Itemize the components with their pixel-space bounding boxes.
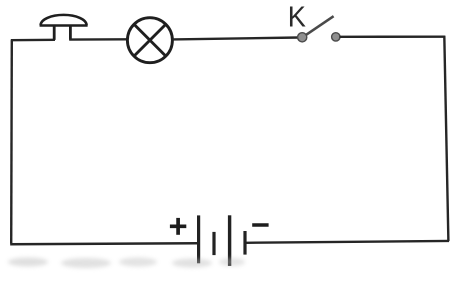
lamp xyxy=(127,18,172,63)
battery xyxy=(199,215,245,266)
wire top segment from bell to lamp xyxy=(69,38,127,41)
svg-text:K: K xyxy=(288,1,306,33)
wire top segment from lamp to switch xyxy=(173,38,299,40)
wire top segment from left corner to bell xyxy=(11,39,55,42)
switch K label xyxy=(288,1,306,33)
switch K right terminal node xyxy=(332,33,340,41)
switch K arm xyxy=(303,16,334,37)
wire right side xyxy=(444,36,448,242)
wire top segment from switch to right corner xyxy=(340,36,445,38)
wire bottom segment from right corner to battery xyxy=(246,241,450,243)
wire bottom segment from battery to left corner xyxy=(10,243,197,244)
battery polarity label + xyxy=(170,218,186,235)
wire left side xyxy=(10,40,13,243)
battery polarity label - xyxy=(252,223,268,227)
switch K left terminal node xyxy=(298,33,307,42)
electric bell xyxy=(40,15,88,40)
